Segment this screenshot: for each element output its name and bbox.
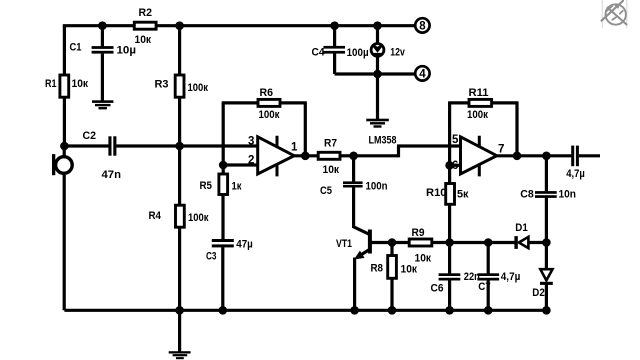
wire to op2 pin5 [397,144,461,147]
svg-text:R3: R3 [155,79,169,91]
wire R4 bottom [178,229,181,311]
wire bottom rail [64,309,546,312]
wire D2 bottom [545,283,548,310]
wire R1 bottom [63,98,66,146]
wire pin6 short [450,164,461,167]
microphone [52,154,72,175]
resistor R8 [388,256,397,279]
capacitor C3 plates [212,239,234,242]
wire op1 pin2 [223,163,258,166]
svg-text:4,7µ: 4,7µ [566,168,585,180]
svg-text:6: 6 [452,160,458,172]
wire C7 bottom [487,280,490,310]
capacitor C5 plates [343,181,363,184]
resistor R1 [60,75,69,97]
wire C8 top [545,156,548,191]
wire VT1 base to junction [371,241,410,244]
wire C4 bottom [333,53,336,74]
svg-text:R10: R10 [426,187,447,199]
wire feedback2 horizontal left [448,101,469,104]
svg-text:LM358: LM358 [369,134,397,146]
wire main ground stem [178,310,181,352]
wire R10 to C6 [448,205,451,274]
wire R8 top [390,243,393,257]
svg-text:R5: R5 [200,180,213,192]
svg-text:12v: 12v [390,47,405,59]
wire C2 to op-amp pin 3 [116,144,258,147]
wire top rail left [64,26,134,28]
svg-text:1к: 1к [232,181,242,193]
transistor VT1 emitter arrow [355,252,364,259]
VT1 base bar [368,230,372,254]
diode D2 [540,269,553,285]
capacitor output 4,7u plates [571,146,574,167]
wire C5 top stem [352,156,355,182]
wire feedback1 right vertical [304,103,307,156]
wire R1 top [63,26,66,75]
svg-text:5к: 5к [457,189,469,201]
svg-text:47µ: 47µ [236,239,253,251]
wire R10 top [448,165,451,184]
svg-text:10к: 10к [323,164,340,176]
wire C5 bottom stem [352,187,355,228]
svg-text:C4: C4 [312,47,326,59]
svg-text:10к: 10к [72,78,89,90]
svg-text:C5: C5 [320,185,332,197]
wire C1 top [101,26,104,47]
wire 12v top stem [376,26,379,44]
wire output right end [579,154,600,157]
wire step vertical [397,146,400,157]
wire top rail right [157,24,416,27]
wire R9 right to D1 [433,241,515,244]
svg-text:5: 5 [452,134,459,146]
svg-text:100к: 100к [188,212,209,224]
svg-text:100к: 100к [259,109,280,121]
wire C6 bottom [448,280,451,310]
svg-text:4,7µ: 4,7µ [501,271,521,283]
svg-text:3: 3 [248,135,254,147]
wire R4 top [178,146,181,205]
wire op1 output [293,154,319,157]
capacitor C2 plates [108,136,111,155]
terminal pin 8 [415,18,429,32]
svg-text:C8: C8 [520,189,534,201]
svg-text:100n: 100n [366,181,388,193]
svg-text:100к: 100к [188,82,209,94]
diode D1 [514,236,528,249]
svg-text:R7: R7 [324,138,337,150]
svg-text:10n: 10n [559,189,577,201]
ground under supply [366,119,389,128]
resistor R7 [318,152,340,159]
capacitor C7 plates [477,273,499,276]
svg-text:1: 1 [291,142,298,154]
wire feedback2 right vertical [515,103,518,156]
svg-text:10к: 10к [415,253,432,265]
resistor R9 [409,239,432,246]
wire feedback2 horizontal right [491,101,519,104]
svg-text:2: 2 [248,154,254,166]
wire R3 bottom [178,98,181,146]
svg-text:10к: 10к [401,264,418,276]
wire R7 right [341,154,353,157]
svg-text:C2: C2 [83,130,97,142]
VT1 emitter diagonal [358,250,370,258]
svg-text:10µ: 10µ [117,45,137,57]
capacitor C1 plates [92,46,114,49]
wire step horizontal low [354,154,399,157]
svg-text:C7: C7 [478,281,491,293]
wire C8 to D1 node [545,198,548,243]
svg-text:4: 4 [419,69,426,81]
svg-text:47n: 47n [102,169,122,181]
svg-text:8: 8 [419,21,426,33]
svg-text:C3: C3 [206,251,217,263]
svg-text:R1: R1 [45,78,57,90]
svg-text:100µ: 100µ [347,47,369,59]
op-amp U1A triangle [258,137,294,174]
resistor R2 [134,22,156,29]
wire D2 top [545,243,548,270]
svg-text:7: 7 [498,144,504,156]
wire op2 output [496,154,572,157]
svg-text:C6: C6 [431,283,444,295]
wire supply bottom to terminal 4 [335,72,416,75]
svg-text:D1: D1 [515,222,528,234]
wire R3 top [178,26,181,75]
wire mic top stem [63,146,66,157]
resistor R6 [258,99,280,106]
resistor R5 [219,174,228,195]
svg-text:C1: C1 [70,42,82,54]
wire C1 to ground [101,54,104,101]
svg-text:R2: R2 [139,7,153,19]
svg-text:R11: R11 [469,87,489,99]
ground under C1 [92,100,113,109]
op-amp U1B triangle [461,137,497,174]
wire R5 top [222,165,225,175]
svg-text:100к: 100к [467,109,488,121]
capacitor C4 plates [323,46,345,49]
wire R8 bottom [390,280,393,311]
wire VT1 emitter to rail [353,258,356,311]
VT1 collector diagonal [354,227,370,235]
capacitor C8 plates [535,191,557,194]
resistor R10 [446,184,455,205]
wire C7 top [487,243,490,274]
svg-text:10к: 10к [135,34,152,46]
wire C3 bottom [221,247,224,310]
resistor R3 [175,75,184,97]
wire supply ground stem [376,74,379,119]
svg-text:R9: R9 [412,227,425,239]
svg-text:D2: D2 [532,287,545,299]
op-amp U1A power bars [276,136,279,177]
svg-text:VT1: VT1 [336,238,352,250]
wire signal line to C2 [64,144,108,147]
resistor R11 [469,99,492,106]
wire 12v bottom stem [376,56,379,74]
wire feedback2 left vertical [448,103,451,165]
resistor R4 [176,205,185,227]
svg-text:R6: R6 [260,87,274,99]
capacitor C6 plates [439,273,461,276]
terminal pin 4 [415,66,429,80]
ground main bottom [169,351,191,359]
wire mic bottom stem [63,175,66,310]
12v source [371,44,384,58]
wire feedback1 horizontal left [222,101,258,104]
svg-text:R4: R4 [149,210,162,222]
op-amp U1B power bars [478,136,481,177]
wire R5 to C3 [221,196,224,240]
wire D1 right [528,241,546,244]
wire feedback1 left vertical [222,103,225,165]
watermark logo [602,1,627,28]
wire C4 top [333,26,336,47]
wire feedback1 horizontal right [280,101,307,104]
svg-text:R8: R8 [371,263,384,275]
